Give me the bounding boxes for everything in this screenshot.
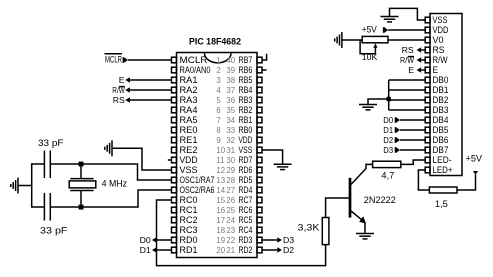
svg-text:1,5: 1,5 [435, 199, 448, 209]
ground (left of VSS pin 12) [105, 140, 112, 156]
net flag arrow D1 (LCD) [395, 127, 400, 133]
net flag arrow E [125, 77, 130, 83]
wire pin RD3 to D3 flag [262, 239, 277, 241]
resistor R3 3,3K [322, 218, 329, 245]
svg-text:D2: D2 [283, 245, 294, 255]
svg-text:RE1: RE1 [180, 135, 198, 145]
svg-text:RC3: RC3 [180, 225, 198, 235]
svg-text:RS: RS [113, 95, 125, 105]
svg-text:RD6: RD6 [239, 165, 253, 175]
svg-text:RD5: RD5 [239, 175, 253, 185]
svg-text:VSS: VSS [239, 145, 253, 155]
net flag arrow R/W (LCD) [417, 57, 422, 63]
IC U1 notch [205, 53, 232, 63]
svg-text:4,7: 4,7 [381, 170, 394, 180]
power flag arrow +5V [383, 27, 388, 33]
svg-text:PIC 18F4682: PIC 18F4682 [189, 37, 241, 48]
svg-text:R/W: R/W [433, 55, 449, 65]
wire LCD VSS to ground [390, 8, 426, 20]
svg-text:OSC2/RA6: OSC2/RA6 [180, 185, 215, 195]
IC U1 left pin names [180, 55, 215, 255]
svg-text:21: 21 [226, 246, 235, 255]
power symbol +5V (bottom right) [473, 171, 478, 175]
wire E to pin RA1 [130, 79, 172, 81]
svg-text:2: 2 [216, 66, 220, 75]
svg-text:27: 27 [226, 186, 235, 195]
svg-text:RD1: RD1 [180, 245, 198, 255]
wire R2 to +5V [457, 175, 476, 191]
svg-text:DB4: DB4 [433, 115, 449, 125]
svg-text:19: 19 [216, 236, 225, 245]
svg-text:35: 35 [226, 106, 235, 115]
wire D2 to LCD DB6 [400, 139, 425, 141]
wire pin31 VSS to ground [262, 150, 283, 164]
junction node crystal top [79, 162, 84, 167]
net flag arrow R/W [125, 87, 130, 93]
svg-text:RA2: RA2 [180, 85, 198, 95]
svg-text:V0: V0 [433, 35, 444, 45]
wire RS to LCD pin [421, 49, 425, 51]
svg-text:17: 17 [216, 216, 225, 225]
wire DB2 to bus [389, 99, 426, 101]
svg-text:RE0: RE0 [180, 125, 198, 135]
svg-text:20: 20 [216, 246, 225, 255]
svg-text:RC1: RC1 [180, 205, 198, 215]
svg-text:34: 34 [226, 116, 235, 125]
wire DB0-DB3 common vertical [388, 80, 390, 110]
svg-text:RS: RS [402, 45, 414, 55]
net flag arrow D0 (LCD) [395, 117, 400, 123]
svg-text:7: 7 [216, 116, 220, 125]
svg-text:37: 37 [226, 86, 235, 95]
emitter arrowhead Q1 [359, 216, 366, 223]
svg-text:VSS: VSS [433, 15, 448, 25]
stub RB6 [262, 69, 267, 71]
net flag arrow E (LCD) [417, 67, 422, 73]
wire ground stem (crystal) [18, 185, 32, 187]
wire pot wiper loop [360, 40, 375, 54]
svg-text:28: 28 [226, 176, 235, 185]
svg-text:RC2: RC2 [180, 215, 198, 225]
svg-text:+5V: +5V [466, 154, 483, 164]
stub RB7 [262, 54, 267, 60]
svg-text:RB5: RB5 [239, 75, 253, 85]
crystal X1 4MHz [69, 164, 96, 207]
wire LED+ to resistor R2 [418, 170, 429, 190]
svg-text:RS: RS [433, 45, 445, 55]
svg-text:4 MHz: 4 MHz [102, 179, 128, 189]
svg-text:11: 11 [216, 156, 224, 165]
wire R/W to pin RA2 [130, 89, 172, 91]
ground (below VSS pin 31) [274, 164, 292, 169]
junction node DB bus [387, 97, 391, 101]
svg-text:32: 32 [226, 136, 235, 145]
svg-text:VDD: VDD [180, 155, 198, 165]
wire D1 to pin RD1 [157, 249, 172, 251]
net flag arrow RS [125, 97, 130, 103]
svg-text:+5V: +5V [362, 24, 378, 34]
wire pot to LCD V0 [388, 39, 425, 41]
svg-text:RB4: RB4 [239, 85, 253, 95]
svg-text:RA5: RA5 [180, 115, 198, 125]
resistor R1 4,7 [373, 161, 401, 167]
svg-text:RC4: RC4 [239, 225, 253, 235]
svg-text:RB2: RB2 [239, 105, 253, 115]
svg-text:RB0: RB0 [239, 125, 253, 135]
wire DB3 to bus [389, 109, 426, 111]
svg-text:9: 9 [216, 136, 220, 145]
svg-text:DB3: DB3 [433, 105, 449, 115]
svg-text:RC7: RC7 [239, 195, 253, 205]
svg-text:22: 22 [226, 236, 235, 245]
svg-text:RC5: RC5 [239, 215, 253, 225]
IC U1 PIC18F4682 body [177, 53, 258, 258]
svg-text:33: 33 [226, 126, 235, 135]
wire R3 to transistor base [326, 198, 350, 218]
svg-text:E: E [408, 65, 414, 75]
net flag arrow D3 (LCD) [395, 147, 400, 153]
transistor Q1 2N2222 [350, 164, 373, 233]
svg-text:6: 6 [216, 106, 220, 115]
capacitor C1 33pF (top) [44, 151, 50, 179]
IC U1 right pin names [239, 55, 253, 255]
LCD connector J1 body [430, 14, 462, 176]
IC U1 pin numbers 1-20 [216, 56, 225, 255]
wire E to LCD pin [421, 69, 425, 71]
svg-text:3: 3 [216, 76, 220, 85]
wire R/W to LCD pin [421, 59, 425, 61]
svg-text:16: 16 [216, 206, 225, 215]
svg-text:25: 25 [226, 206, 235, 215]
svg-text:MCLR: MCLR [105, 55, 122, 65]
IC U1 pin numbers 40-21 [226, 56, 235, 255]
potentiometer R4 10K body [362, 36, 388, 42]
svg-text:2N2222: 2N2222 [364, 195, 396, 205]
svg-text:DB1: DB1 [433, 85, 449, 95]
IC U1 right pin boxes (pins 21-40) [257, 57, 262, 253]
capacitor C2 33pF (bottom) [44, 193, 50, 221]
wire D3 to LCD DB7 [400, 149, 425, 151]
svg-text:LED+: LED+ [433, 165, 453, 175]
svg-text:5: 5 [216, 96, 221, 105]
svg-text:LED-: LED- [433, 155, 452, 165]
svg-text:OSC1/RA7: OSC1/RA7 [180, 175, 215, 185]
svg-text:D3: D3 [383, 145, 393, 155]
svg-text:RC6: RC6 [239, 205, 253, 215]
wire MCLR to pin1 [128, 59, 172, 61]
svg-text:D2: D2 [383, 135, 393, 145]
svg-text:RD3: RD3 [239, 235, 253, 245]
wire DB1 to bus [389, 89, 426, 91]
svg-text:4: 4 [216, 86, 221, 95]
svg-text:RB6: RB6 [239, 65, 253, 75]
pot wiper arrow [373, 43, 377, 48]
svg-text:RC0: RC0 [180, 195, 198, 205]
svg-text:13: 13 [216, 176, 225, 185]
svg-text:VSS: VSS [180, 165, 198, 175]
stub VDD pin 11 [168, 159, 172, 161]
svg-text:RB1: RB1 [239, 115, 253, 125]
svg-text:14: 14 [216, 186, 225, 195]
svg-text:DB2: DB2 [433, 95, 449, 105]
svg-text:31: 31 [226, 146, 235, 155]
svg-text:15: 15 [216, 196, 225, 205]
svg-text:18: 18 [216, 226, 225, 235]
svg-text:MCLR: MCLR [180, 55, 208, 65]
svg-text:12: 12 [216, 166, 225, 175]
svg-text:8: 8 [216, 126, 220, 135]
ground (emitter Q1) [356, 234, 374, 239]
svg-text:DB5: DB5 [433, 125, 449, 135]
svg-text:40: 40 [226, 56, 235, 65]
svg-text:RD7: RD7 [239, 155, 253, 165]
svg-text:DB0: DB0 [433, 75, 449, 85]
svg-text:33 pF: 33 pF [38, 138, 64, 148]
wire R1 to LED- pin [401, 160, 425, 164]
svg-text:D1: D1 [383, 125, 393, 135]
svg-text:RB7: RB7 [239, 55, 253, 65]
svg-text:DB7: DB7 [433, 145, 449, 155]
wire D1 to LCD DB5 [400, 129, 425, 131]
svg-text:D1: D1 [140, 245, 151, 255]
svg-text:33 pF: 33 pF [40, 226, 68, 236]
svg-text:23: 23 [226, 226, 235, 235]
svg-text:D3: D3 [283, 235, 294, 245]
svg-text:26: 26 [226, 196, 235, 205]
svg-text:RD0: RD0 [180, 235, 198, 245]
svg-text:RA3: RA3 [180, 95, 198, 105]
svg-text:DB6: DB6 [433, 135, 449, 145]
wire C2 left plate to rail [32, 206, 45, 208]
ground (crystal left) [11, 178, 18, 194]
wire DB bus to ground [368, 99, 389, 105]
svg-text:RA0/AN0: RA0/AN0 [180, 65, 211, 75]
LCD connector pin names [433, 15, 453, 175]
wire pin12 VSS to ground [112, 148, 172, 170]
resistor R2 1,5 [429, 187, 457, 193]
svg-text:RE2: RE2 [180, 145, 198, 155]
svg-text:D0: D0 [383, 115, 393, 125]
LCD connector pin boxes [425, 17, 430, 173]
wire RC0 to resistor R3 (3,3K) [157, 200, 326, 266]
svg-text:VDD: VDD [239, 135, 253, 145]
svg-text:36: 36 [226, 96, 235, 105]
ground (DB0-DB3) [359, 105, 377, 110]
svg-text:38: 38 [226, 76, 235, 85]
net flag arrow MCLR [123, 57, 128, 63]
net flag arrow D2 [277, 247, 282, 253]
net flag arrow D3 [277, 237, 282, 243]
svg-text:3,3K: 3,3K [298, 223, 321, 233]
ground (LCD VSS) [381, 17, 399, 22]
wire +5V to LCD VDD [388, 29, 425, 31]
net flag arrow D0 [152, 237, 157, 243]
ground (pot 10K) [335, 32, 342, 48]
net flag arrow D2 (LCD) [395, 137, 400, 143]
wire OSC1 to crystal top rail [50, 164, 171, 180]
wire OSC2 to crystal bottom rail [50, 190, 171, 207]
svg-text:1: 1 [216, 56, 220, 65]
wire RS to pin RA3 [130, 99, 172, 101]
svg-text:RA4: RA4 [180, 105, 198, 115]
svg-text:E: E [119, 75, 125, 85]
wire DB0 to bus [389, 79, 426, 81]
svg-text:24: 24 [226, 216, 235, 225]
svg-text:RD2: RD2 [239, 245, 253, 255]
IC U1 left pin boxes (pins 1-20) [172, 57, 177, 253]
svg-text:RB3: RB3 [239, 95, 253, 105]
svg-text:10: 10 [216, 146, 225, 155]
svg-text:39: 39 [226, 66, 235, 75]
wire D0 to LCD DB4 [400, 119, 425, 121]
wire pot left to ground [342, 39, 362, 41]
svg-text:30: 30 [226, 156, 235, 165]
wire D0 to pin RD0 [157, 239, 172, 241]
net flag arrow RS (LCD) [417, 47, 422, 53]
svg-text:RA1: RA1 [180, 75, 198, 85]
svg-text:RD4: RD4 [239, 185, 253, 195]
svg-text:E: E [433, 65, 439, 75]
svg-text:D0: D0 [140, 235, 151, 245]
wire C1 left plate to rail [32, 163, 45, 165]
wire left rail joining capacitors [31, 163, 33, 207]
junction node crystal bottom [79, 205, 84, 210]
net flag arrow D1 [152, 247, 157, 253]
wire pin RD2 to D2 flag [262, 249, 277, 251]
svg-text:29: 29 [226, 166, 235, 175]
svg-text:VDD: VDD [433, 25, 449, 35]
